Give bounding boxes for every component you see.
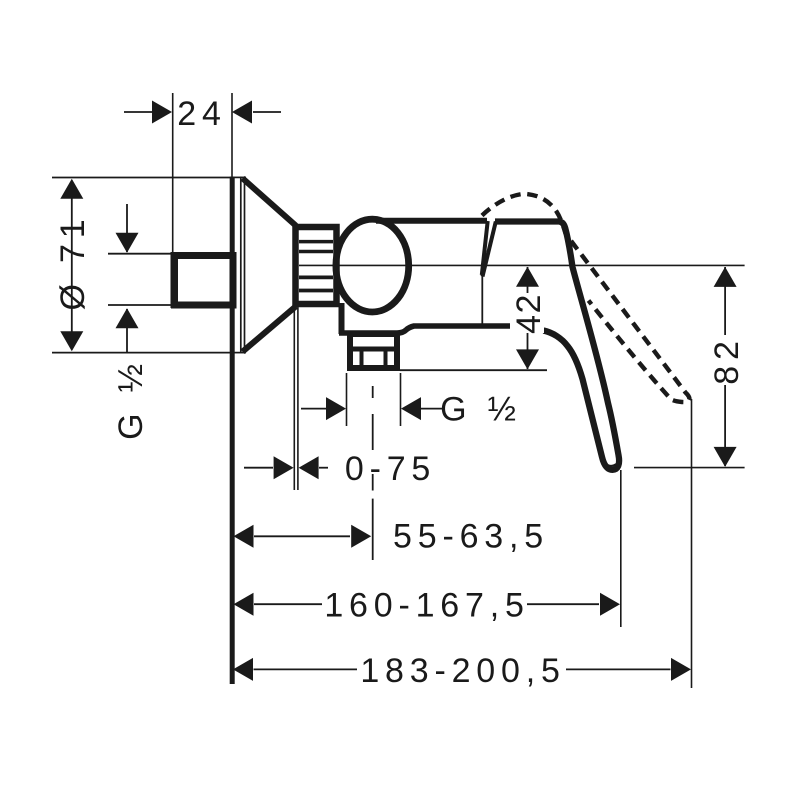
outlet axis centerline dash 1	[372, 386, 374, 398]
stub dim upper leader	[126, 204, 128, 252]
55-63,5 dimension line	[254, 535, 350, 537]
nut rib bar 1	[299, 240, 333, 244]
outlet mid bar	[348, 347, 399, 352]
arrow G1/2 right	[401, 397, 421, 420]
lever tip inner highlight line	[602, 459, 617, 466]
42 bottom tick	[400, 369, 547, 371]
arrow stub bottom (up)	[116, 308, 139, 328]
white mask for 82 label	[709, 335, 741, 385]
wall escutcheon flange left edge	[230, 177, 235, 684]
dimension extension line above wall (24 right)	[231, 93, 233, 177]
arrow dia71 bottom	[60, 331, 83, 351]
G1/2 dim right tail	[421, 408, 445, 410]
svg-text:183-200,5: 183-200,5	[360, 652, 565, 690]
0-75 extension line right of pair	[297, 306, 299, 490]
stub left edge extra thickness	[171, 252, 177, 308]
G1/2 outlet right extension	[400, 373, 402, 426]
escutcheon cone bottom edge	[243, 306, 297, 352]
outlet axis centerline dash 2	[372, 414, 374, 450]
183-200,5 dimension line left part	[254, 668, 358, 670]
arrow 24 left	[152, 101, 172, 124]
body/handle seam V-notch right line	[483, 222, 496, 277]
ribbed connection nut	[296, 227, 337, 304]
stub top tick	[108, 253, 172, 255]
24 dimension left tail	[124, 111, 152, 113]
dome to body lower-left vertical	[339, 303, 345, 334]
arrow 82 bottom (down)	[714, 447, 737, 467]
flange top cap	[230, 176, 246, 178]
outlet axis centerline dash 3	[372, 474, 374, 491]
arrow 55 left	[234, 525, 254, 548]
dimension extension line at x=172.7 (24 left)	[172, 93, 174, 252]
arrow 55 right	[351, 525, 371, 548]
183-200,5 dimension line right part	[566, 668, 671, 670]
flange inner thin line 1	[240, 177, 242, 353]
svg-text:82: 82	[708, 335, 746, 384]
svg-text:24: 24	[177, 95, 226, 133]
82 bottom tick	[634, 467, 745, 469]
outlet hex nut inner face right edge	[384, 352, 388, 369]
outlet hex nut inner face left edge	[360, 352, 364, 369]
arrow dia71 top	[60, 179, 83, 199]
dia71 top tick	[52, 177, 230, 179]
arrow 0-75 right	[299, 456, 319, 479]
arrow 24 right	[232, 101, 252, 124]
0-75 left tail	[244, 467, 273, 469]
flange bottom cap	[230, 352, 246, 354]
arrow 42 top (up)	[516, 267, 539, 287]
svg-text:55-63,5: 55-63,5	[393, 517, 549, 555]
160-167,5 dimension line right part	[527, 603, 599, 605]
nut rib bar 2	[299, 250, 333, 254]
arrow 42 bottom (down)	[516, 349, 539, 369]
arrow stub top (down)	[116, 233, 139, 253]
dia71 bottom tick	[52, 352, 230, 354]
flange inner thin line 2	[244, 177, 246, 353]
svg-text:42: 42	[510, 293, 548, 334]
24 dimension right tail	[253, 111, 281, 113]
body/handle seam V-notch left line	[482, 221, 488, 275]
arrow 183 right	[671, 658, 691, 681]
arrow G1/2 left	[326, 397, 346, 420]
stub dim lower leader	[126, 309, 128, 352]
valve dome (ellipse)	[336, 219, 409, 312]
arrow 0-75 left	[274, 456, 294, 479]
handle open position dashed outline	[482, 194, 689, 402]
arrow 183 left	[233, 658, 253, 681]
svg-text:160-167,5: 160-167,5	[324, 586, 529, 624]
stub bottom tick	[108, 304, 172, 306]
dia71 dimension line	[71, 196, 73, 334]
wall supply stub G1/2	[175, 256, 234, 306]
arrow 160 left	[234, 593, 254, 616]
lever tip extension line	[620, 470, 622, 627]
escutcheon cone top edge	[243, 178, 297, 226]
0-75 extension line left of pair	[293, 306, 295, 490]
svg-text:0-75: 0-75	[345, 450, 436, 488]
42 dimension line	[527, 267, 529, 369]
82 dimension line	[724, 267, 726, 466]
nut rib bar 4	[299, 289, 333, 293]
body bottom edge left segment	[339, 326, 510, 333]
centerline through faucet axis	[299, 264, 745, 266]
arrow 160 right	[600, 593, 620, 616]
svg-text:Ø 71: Ø 71	[54, 214, 92, 311]
outlet collar below body	[350, 334, 397, 368]
0-75 right tail	[319, 467, 328, 469]
svg-text:G ½: G ½	[112, 358, 150, 440]
handle base top and lever right edge with tip	[495, 222, 619, 470]
arrow 82 top (up)	[714, 267, 737, 287]
outlet axis centerline dash 4	[372, 499, 374, 560]
svg-text:G ½: G ½	[440, 391, 522, 429]
white mask for 42 label	[512, 293, 544, 333]
body top edge	[376, 218, 487, 224]
open handle tip extension line	[691, 399, 693, 688]
160-167,5 dimension line left part	[254, 603, 322, 605]
G1/2 dim left tail	[301, 408, 326, 410]
seam vertical thin line	[481, 276, 483, 324]
G1/2 outlet left extension	[346, 373, 348, 426]
nut rib bar 3	[299, 275, 333, 279]
